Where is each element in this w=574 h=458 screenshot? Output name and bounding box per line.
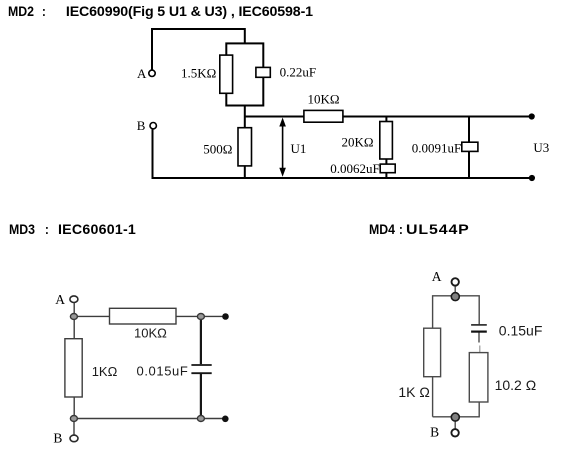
svg-text:0.22uF: 0.22uF xyxy=(280,65,316,80)
svg-text:U3: U3 xyxy=(533,140,549,155)
svg-text:0.0091uF: 0.0091uF xyxy=(412,140,461,155)
svg-text:1.5KΩ: 1.5KΩ xyxy=(181,65,216,80)
svg-text:A: A xyxy=(55,292,65,307)
svg-text:U1: U1 xyxy=(291,141,307,156)
svg-text:1K Ω: 1K Ω xyxy=(398,384,429,400)
svg-text:10KΩ: 10KΩ xyxy=(134,326,167,341)
svg-text:B: B xyxy=(430,425,439,440)
svg-text:B: B xyxy=(137,118,146,133)
svg-text:0.15uF: 0.15uF xyxy=(499,323,543,339)
svg-text:500Ω: 500Ω xyxy=(203,141,232,156)
svg-text:A: A xyxy=(137,66,147,81)
svg-text:20KΩ: 20KΩ xyxy=(342,135,374,150)
svg-text:0.015uF: 0.015uF xyxy=(137,364,189,379)
svg-text:10KΩ: 10KΩ xyxy=(308,91,340,106)
svg-text:10.2 Ω: 10.2 Ω xyxy=(495,377,537,393)
svg-text:A: A xyxy=(432,269,442,284)
svg-text:B: B xyxy=(53,431,62,446)
svg-text:0.0062uF: 0.0062uF xyxy=(330,161,379,176)
svg-text:1KΩ: 1KΩ xyxy=(92,364,118,379)
